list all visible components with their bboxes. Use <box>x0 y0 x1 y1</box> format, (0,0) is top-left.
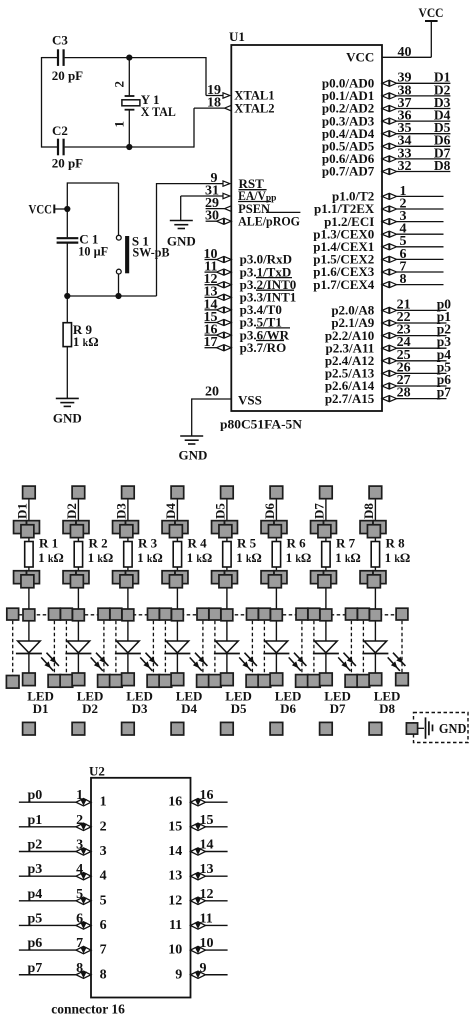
svg-text:5: 5 <box>76 887 83 902</box>
svg-text:D6: D6 <box>280 701 296 716</box>
svg-text:4: 4 <box>76 862 83 877</box>
svg-text:p1: p1 <box>28 813 43 828</box>
svg-text:R 4: R 4 <box>188 535 208 550</box>
svg-text:U1: U1 <box>229 29 245 44</box>
svg-text:GND: GND <box>53 410 82 425</box>
svg-text:1: 1 <box>112 121 127 128</box>
svg-text:p6: p6 <box>28 936 43 951</box>
svg-text:30: 30 <box>205 209 219 224</box>
svg-text:D4: D4 <box>181 701 197 716</box>
svg-text:40: 40 <box>398 45 412 60</box>
svg-text:R 2: R 2 <box>89 535 108 550</box>
svg-text:R 5: R 5 <box>237 535 257 550</box>
svg-text:4: 4 <box>100 869 107 884</box>
svg-text:C3: C3 <box>52 32 68 47</box>
svg-text:20 pF: 20 pF <box>52 155 83 170</box>
svg-text:GND: GND <box>439 721 467 736</box>
svg-text:15: 15 <box>200 813 214 828</box>
svg-text:p5: p5 <box>28 911 43 926</box>
svg-text:D8: D8 <box>361 503 376 519</box>
svg-text:13: 13 <box>168 869 182 884</box>
svg-text:D4: D4 <box>163 503 178 519</box>
svg-text:6: 6 <box>76 911 83 926</box>
svg-text:U2: U2 <box>89 764 105 779</box>
svg-text:D8: D8 <box>379 701 395 716</box>
svg-text:3: 3 <box>100 844 107 859</box>
svg-text:p80C51FA-5N: p80C51FA-5N <box>220 417 303 432</box>
svg-text:connector 16: connector 16 <box>51 1002 125 1016</box>
svg-text:12: 12 <box>200 887 214 902</box>
svg-text:2: 2 <box>111 81 126 88</box>
svg-text:2: 2 <box>100 819 107 834</box>
svg-text:8: 8 <box>76 961 83 976</box>
svg-text:28: 28 <box>397 386 411 401</box>
svg-text:20 pF: 20 pF <box>52 68 83 83</box>
svg-text:R 1: R 1 <box>39 535 58 550</box>
svg-text:6: 6 <box>100 918 107 933</box>
svg-text:VCC: VCC <box>419 5 444 20</box>
svg-text:11: 11 <box>200 911 213 926</box>
svg-text:16: 16 <box>200 788 214 803</box>
svg-text:D7: D7 <box>312 503 327 519</box>
svg-text:SW-pB: SW-pB <box>133 245 170 260</box>
svg-text:14: 14 <box>168 844 182 859</box>
svg-text:20: 20 <box>205 385 219 400</box>
svg-text:D6: D6 <box>262 503 277 519</box>
svg-text:7: 7 <box>100 943 107 958</box>
svg-text:D3: D3 <box>132 701 148 716</box>
svg-text:D8: D8 <box>434 158 451 173</box>
svg-text:11: 11 <box>169 918 182 933</box>
svg-text:R 3: R 3 <box>138 535 158 550</box>
svg-text:7: 7 <box>76 936 83 951</box>
svg-text:p2: p2 <box>28 838 43 853</box>
svg-text:1: 1 <box>100 795 107 810</box>
svg-text:10 µF: 10 µF <box>78 243 108 258</box>
svg-text:p7: p7 <box>437 385 452 400</box>
svg-text:VCC: VCC <box>346 50 374 65</box>
svg-text:D1: D1 <box>33 701 49 716</box>
svg-text:9: 9 <box>200 961 207 976</box>
svg-text:GND: GND <box>167 233 196 248</box>
svg-text:p4: p4 <box>28 887 43 902</box>
svg-text:10: 10 <box>168 943 182 958</box>
svg-text:12: 12 <box>168 893 182 908</box>
svg-text:D1: D1 <box>15 503 30 519</box>
svg-text:ALE/pROG: ALE/pROG <box>238 213 300 228</box>
svg-text:C2: C2 <box>52 123 68 138</box>
svg-text:p0: p0 <box>28 788 43 803</box>
svg-text:9: 9 <box>175 967 182 982</box>
svg-text:17: 17 <box>204 335 218 350</box>
svg-text:p2.7/A15: p2.7/A15 <box>325 391 375 406</box>
svg-text:p3: p3 <box>28 862 43 877</box>
svg-text:16: 16 <box>168 795 182 810</box>
svg-text:D5: D5 <box>213 503 228 519</box>
svg-text:XTAL2: XTAL2 <box>234 100 274 115</box>
svg-text:p0.7/AD7: p0.7/AD7 <box>322 164 375 179</box>
svg-text:D2: D2 <box>64 503 79 519</box>
svg-text:8: 8 <box>100 967 107 982</box>
svg-text:8: 8 <box>400 272 407 287</box>
svg-text:GND: GND <box>179 447 208 462</box>
svg-text:D7: D7 <box>330 701 346 716</box>
svg-text:1: 1 <box>76 788 83 803</box>
svg-text:15: 15 <box>168 819 182 834</box>
svg-text:p3.7/RO: p3.7/RO <box>240 340 287 355</box>
svg-text:10: 10 <box>200 936 214 951</box>
svg-text:32: 32 <box>398 159 412 174</box>
svg-text:D3: D3 <box>114 503 129 519</box>
svg-text:R 7: R 7 <box>336 535 356 550</box>
svg-text:R 6: R 6 <box>287 535 307 550</box>
svg-text:3: 3 <box>76 838 83 853</box>
svg-text:VSS: VSS <box>238 393 262 408</box>
svg-text:D2: D2 <box>82 701 98 716</box>
svg-text:D5: D5 <box>231 701 247 716</box>
svg-text:X TAL: X TAL <box>141 104 176 119</box>
svg-text:p1.7/CEX4: p1.7/CEX4 <box>313 277 375 292</box>
svg-text:R 8: R 8 <box>386 535 406 550</box>
svg-text:13: 13 <box>200 862 214 877</box>
svg-text:p7: p7 <box>28 961 43 976</box>
svg-text:5: 5 <box>100 893 107 908</box>
svg-text:18: 18 <box>207 96 221 111</box>
svg-text:14: 14 <box>200 838 214 853</box>
svg-text:VCC: VCC <box>29 201 53 216</box>
svg-text:2: 2 <box>76 813 83 828</box>
